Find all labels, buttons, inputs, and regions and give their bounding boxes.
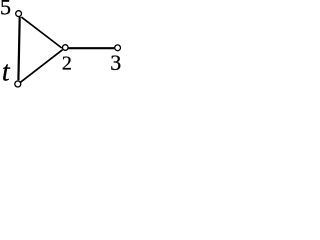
wire edge 5-t xyxy=(18,17,19,80)
wire edge t-2 xyxy=(21,50,63,82)
node 2 xyxy=(63,45,69,51)
node 3 xyxy=(115,45,121,51)
wire edge 2-3 xyxy=(69,47,115,49)
node t xyxy=(15,81,21,87)
svg-text:2: 2 xyxy=(62,52,72,74)
wire edge 5-2 xyxy=(21,17,61,48)
svg-text:5: 5 xyxy=(0,0,11,19)
node 5 xyxy=(16,11,22,17)
svg-text:t: t xyxy=(2,56,11,87)
svg-text:3: 3 xyxy=(110,50,121,75)
